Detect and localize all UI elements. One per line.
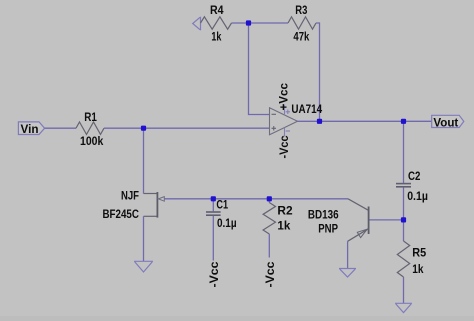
node junction output/C2 <box>401 119 406 124</box>
capacitor C2 <box>396 121 428 220</box>
svg-text:PNP: PNP <box>318 224 338 236</box>
wire R4 to node <box>232 22 249 24</box>
ground (left of R4, pointing left) <box>193 17 201 31</box>
Vin tag <box>18 122 44 136</box>
svg-text:Vout: Vout <box>433 118 458 130</box>
resistor R1 <box>76 122 104 134</box>
svg-text:BF245C: BF245C <box>103 209 139 221</box>
capacitor C1 <box>206 199 237 261</box>
wire op-amp output <box>298 120 320 122</box>
svg-text:47k: 47k <box>293 31 309 43</box>
svg-text:1k: 1k <box>277 221 291 233</box>
wire R1 to + input <box>104 127 270 129</box>
svg-text:UA714: UA714 <box>291 104 322 116</box>
resistor R2 <box>263 199 293 258</box>
ground (R5) <box>395 303 412 312</box>
svg-text:-Vcc: -Vcc <box>265 261 277 288</box>
wire node down to inverting input <box>249 23 270 115</box>
ground (JFET source) <box>134 261 153 272</box>
svg-text:1k: 1k <box>412 264 424 276</box>
svg-text:R3: R3 <box>295 5 307 17</box>
wire JFET source down to ground <box>143 216 145 261</box>
resistor R3 <box>288 17 316 29</box>
wire base to node <box>370 219 404 221</box>
svg-text:Vin: Vin <box>21 124 39 136</box>
svg-text:R2: R2 <box>277 206 292 218</box>
op-amp U1 UA714 <box>270 104 323 135</box>
transistor Q1 NJF BF245C <box>103 190 165 221</box>
node junction output/feedback <box>317 119 322 124</box>
resistor R5 <box>397 220 426 303</box>
op-amp +Vcc pin stub <box>284 105 286 116</box>
wire output to right <box>320 120 404 122</box>
node junction C2/R5/base <box>401 217 406 222</box>
wire Vin to R1 <box>45 127 76 129</box>
svg-text:1k: 1k <box>211 32 221 44</box>
svg-text:0.1µ: 0.1µ <box>217 218 237 230</box>
svg-text:NJF: NJF <box>121 190 139 202</box>
svg-text:R5: R5 <box>412 247 426 259</box>
op-amp -Vcc pin stub <box>284 128 286 137</box>
node junction gate/C1 <box>211 196 216 201</box>
wire node to R3 <box>249 22 289 24</box>
ground (BD136 emitter) <box>339 269 356 278</box>
wire R3 right to feedback corner <box>316 23 320 121</box>
wire node down to JFET drain <box>143 128 145 193</box>
wire to Vout <box>404 120 432 122</box>
Vout tag <box>432 115 464 129</box>
svg-text:C2: C2 <box>408 171 420 183</box>
node junction R4/R3/feedback <box>246 20 251 25</box>
node junction R1/gate branch <box>141 126 146 131</box>
svg-text:R4: R4 <box>210 5 224 17</box>
svg-text:C1: C1 <box>216 200 228 212</box>
svg-text:-Vcc: -Vcc <box>279 135 291 159</box>
wire gate net <box>164 198 348 200</box>
wire emitter to ground <box>347 241 349 268</box>
transistor Q2 BD136 PNP <box>308 199 369 242</box>
svg-text:-Vcc: -Vcc <box>209 261 221 288</box>
node junction gate/R2 <box>267 196 272 201</box>
svg-text:100k: 100k <box>80 136 104 148</box>
svg-text:R1: R1 <box>84 112 97 124</box>
svg-text:0.1µ: 0.1µ <box>407 191 428 203</box>
svg-text:BD136: BD136 <box>308 209 339 221</box>
svg-text:+Vcc: +Vcc <box>279 82 291 110</box>
resistor R4 <box>201 17 232 29</box>
